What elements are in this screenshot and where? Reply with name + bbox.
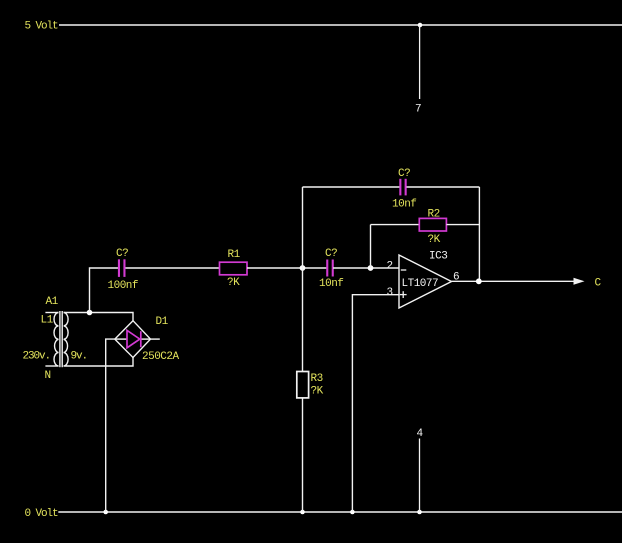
wire tap up to 100nf input [90, 268, 119, 313]
svg-text:LT1077: LT1077 [402, 278, 439, 290]
svg-text:0 Volt: 0 Volt [25, 508, 59, 520]
svg-text:10nf: 10nf [392, 199, 416, 211]
wire pin 3 input [352, 295, 399, 512]
junction at R1 / R3 / feedback node [300, 265, 306, 271]
svg-text:R2: R2 [428, 208, 440, 220]
svg-text:9v.: 9v. [71, 351, 88, 363]
svg-text:3: 3 [387, 287, 393, 299]
junction at output / feedback [476, 278, 482, 284]
svg-text:IC3: IC3 [429, 250, 447, 262]
junction on 0 Volt rail at IC3 pin 4 [417, 510, 422, 515]
wire R1 to node [247, 267, 327, 269]
output arrow head [574, 278, 585, 285]
wire feedback right riser [478, 187, 480, 281]
svg-text:?K: ?K [428, 234, 441, 246]
junction on 0 Volt rail at IC3 pin 3 [350, 510, 355, 515]
wire feedback top run [303, 186, 400, 188]
wire output run [452, 280, 575, 282]
inverting input minus mark [401, 269, 407, 271]
wire transformer secondary bottom [64, 358, 133, 367]
svg-text:A1: A1 [46, 296, 59, 308]
wire bridge left stub to 0 Volt [106, 339, 115, 512]
wire feedback top to right riser [407, 186, 480, 188]
wire C? to R1 [126, 267, 220, 269]
resistor R2 [419, 218, 446, 231]
wire transformer secondary top [64, 313, 133, 321]
svg-text:4: 4 [417, 428, 424, 440]
wire node down to R3 [302, 268, 304, 372]
junction at secondary top tap [87, 310, 93, 316]
resistor R3 [297, 372, 309, 398]
svg-text:D1: D1 [156, 316, 169, 328]
svg-text:5 Volt: 5 Volt [25, 20, 59, 32]
bridge rectifier D1 [115, 321, 151, 358]
capacitor C? 10nf (feedback) [399, 179, 406, 196]
svg-text:10nf: 10nf [319, 278, 343, 290]
op-amp IC3 [399, 255, 452, 308]
junction on 5 Volt rail at IC3 pin 7 [418, 23, 423, 28]
wire C? to inverting node [333, 267, 399, 269]
svg-text:C?: C? [398, 168, 410, 180]
svg-text:C: C [595, 278, 602, 290]
junction on 0 Volt rail at bridge return [103, 510, 108, 515]
svg-text:L1: L1 [41, 315, 54, 327]
svg-text:?K: ?K [227, 277, 240, 289]
wire bridge right stub [151, 338, 160, 340]
svg-text:R3: R3 [311, 373, 323, 385]
capacitor C? 100nf [118, 259, 126, 277]
junction on 0 Volt rail at R3 [300, 510, 305, 515]
wire R3 to 0 Volt [302, 398, 304, 512]
capacitor C? 10nf (input) [326, 260, 334, 277]
svg-text:100nf: 100nf [108, 280, 139, 292]
svg-text:230v.: 230v. [23, 351, 51, 363]
non-inverting input plus mark [400, 291, 407, 298]
svg-text:250C2A: 250C2A [142, 351, 180, 363]
svg-text:C?: C? [116, 248, 128, 260]
wire R2 to output riser [446, 224, 479, 226]
svg-text:N: N [45, 370, 51, 382]
wire 5 Volt power rail [59, 24, 622, 26]
wire 0 Volt power rail [58, 511, 622, 513]
svg-text:2: 2 [387, 260, 393, 272]
svg-text:C?: C? [325, 248, 337, 260]
wire R2 branch riser [370, 225, 372, 268]
wire node to R2 [371, 224, 420, 226]
diode inside D1 [127, 330, 141, 347]
wire IC3 pin 4 stub [419, 439, 421, 513]
resistor R1 [220, 262, 248, 275]
wire IC3 pin 7 stub [419, 25, 421, 99]
svg-text:R1: R1 [228, 249, 241, 261]
junction at inverting input node [368, 265, 374, 271]
svg-text:7: 7 [415, 104, 421, 116]
wire feedback left riser [302, 187, 304, 268]
svg-text:?K: ?K [311, 386, 324, 398]
transformer L1 [45, 311, 68, 367]
